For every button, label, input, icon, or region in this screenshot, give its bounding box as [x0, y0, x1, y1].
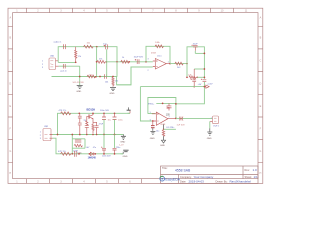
- resistor R6 feedback: [155, 45, 164, 48]
- svg-text:1N4148: 1N4148: [88, 157, 97, 160]
- svg-text:Company:: Company:: [180, 175, 192, 179]
- caps bank upper C17 C18: [102, 112, 112, 135]
- svg-text:+9V: +9V: [198, 84, 202, 86]
- capacitor C16 bottom: [74, 151, 76, 157]
- wire H2 mid rail: [106, 61, 153, 63]
- capacitor C2 on pin2 wire: [63, 64, 65, 69]
- svg-text:GND: GND: [150, 138, 155, 140]
- resistor R13 bottom: [61, 152, 71, 155]
- svg-text:Sheet:: Sheet:: [245, 175, 253, 179]
- op-amp U1.2: [150, 112, 176, 129]
- connector MK1 mic: [40, 126, 53, 140]
- svg-text:BD139: BD139: [87, 108, 96, 112]
- SECTION 2 : opamp U1.2 output: [140, 87, 219, 147]
- resistor R7: [175, 62, 184, 65]
- svg-text:C: C: [259, 60, 261, 63]
- wire pin1 up to top rail: [58, 47, 117, 77]
- svg-text:U1.1: U1.1: [157, 55, 162, 57]
- border outer: [8, 8, 263, 183]
- svg-text:47uF: 47uF: [99, 123, 104, 125]
- wire opamp2 out: [176, 117, 213, 119]
- capacitor C14: [85, 125, 89, 135]
- svg-text:1: 1: [211, 117, 212, 119]
- svg-text:7: 7: [169, 117, 170, 119]
- svg-text:3: 3: [148, 59, 149, 61]
- capacitor C15 emitter: [93, 122, 99, 134]
- ground jack: [76, 85, 82, 93]
- wire vertical x106.6: [106, 49, 108, 76]
- wire pin2 drop to ground: [79, 66, 81, 85]
- svg-text:4558: 4558: [151, 53, 157, 55]
- svg-text:Date:: Date:: [180, 180, 186, 184]
- connector J2 output: [210, 116, 220, 128]
- svg-text:GND: GND: [123, 156, 128, 158]
- bias rail wires: [187, 47, 204, 79]
- capacitor C9: [167, 103, 172, 110]
- inner wire: [156, 102, 176, 104]
- svg-text:H: H: [9, 172, 11, 175]
- capacitor C4 on top rail: [104, 44, 108, 49]
- resistor R2 to ground: [110, 77, 120, 95]
- border ticks left: [8, 26, 13, 162]
- border ticks right: [258, 26, 263, 162]
- svg-text:G: G: [259, 150, 261, 153]
- ground mid rail: [120, 135, 126, 144]
- svg-text:audio in: audio in: [54, 42, 62, 44]
- branch caps C12 C13: [78, 112, 82, 135]
- caps bank lower C19 C20: [101, 135, 111, 158]
- RC box: [71, 134, 85, 155]
- svg-text:GND: GND: [120, 142, 125, 144]
- svg-text:SJ1-3523N: SJ1-3523N: [73, 82, 84, 84]
- resistor R1 on row3: [87, 75, 96, 78]
- svg-text:4558 SAB: 4558 SAB: [175, 169, 191, 173]
- capacitor C10 to gnd: [150, 120, 159, 140]
- svg-text:2019-04-03: 2019-04-03: [189, 180, 205, 184]
- svg-text:Drawn By:: Drawn By:: [216, 180, 228, 184]
- svg-text:C: C: [9, 60, 11, 63]
- svg-text:1: 1: [168, 61, 169, 63]
- border ticks bottom: [27, 179, 142, 184]
- resistor R9 to gnd: [160, 124, 176, 146]
- resistor R17 between verticals: [97, 60, 105, 63]
- svg-text:G: G: [9, 150, 11, 153]
- wire row3: [52, 67, 153, 85]
- svg-text:10u: 10u: [156, 131, 159, 133]
- svg-text:10uF 50V: 10uF 50V: [134, 56, 144, 58]
- svg-text:D: D: [259, 83, 261, 86]
- wire opamp out: [170, 63, 187, 65]
- ground under J2: [207, 122, 213, 141]
- svg-text:47u: 47u: [93, 147, 96, 149]
- diode D1: [89, 153, 91, 155]
- svg-text:1-2V: 1-2V: [119, 144, 124, 146]
- border ticks top: [27, 8, 234, 12]
- svg-text:EasyEDA: EasyEDA: [165, 178, 180, 182]
- resistor R11 base: [86, 121, 88, 125]
- svg-text:H: H: [259, 172, 261, 175]
- svg-text:5: 5: [150, 112, 151, 114]
- SECTION power/bias right: [140, 44, 213, 104]
- svg-text:GND: GND: [160, 145, 165, 147]
- power flag +9V: [198, 84, 210, 88]
- EasyEDA logo: [160, 176, 181, 181]
- svg-text:100n 50V: 100n 50V: [100, 110, 110, 112]
- resistor R3 vertical from top rail: [75, 47, 82, 63]
- power flag battery top rail: [127, 107, 131, 113]
- capacitor C6 +9V on top: [192, 44, 199, 54]
- resistor R8: [186, 76, 188, 78]
- wire inner: [195, 52, 204, 54]
- wire pin2 down to bottom rail: [53, 138, 124, 154]
- wire vertical x96.6: [96, 47, 98, 77]
- wire +9V rail horizontal: [140, 86, 204, 88]
- capacitor C8 on rail: [201, 79, 206, 82]
- svg-text:1.0: 1.0: [253, 168, 258, 172]
- svg-text:GND: GND: [207, 138, 212, 140]
- wire bias to opamp pin2: [117, 67, 153, 85]
- wire up to top rail: [58, 113, 131, 134]
- svg-text:GND: GND: [76, 91, 81, 93]
- wire stub y69: [194, 68, 204, 70]
- svg-text:220u: 220u: [116, 147, 120, 149]
- ground bottom rail: [121, 150, 129, 158]
- capacitor C11: [179, 117, 183, 121]
- svg-text:2: 2: [148, 70, 149, 72]
- svg-text:GND: GND: [110, 93, 115, 95]
- svg-text:47K 1%: 47K 1%: [59, 110, 67, 112]
- svg-text:Title:: Title:: [162, 166, 168, 170]
- transistor Q1 BD139: [84, 112, 94, 122]
- svg-text:1/1: 1/1: [254, 175, 259, 179]
- svg-text:47K 1%: 47K 1%: [58, 151, 66, 153]
- svg-text:6: 6: [150, 120, 151, 122]
- capacitor C7: [191, 69, 197, 87]
- feedback loop wire: [146, 46, 170, 63]
- op-amp U1.1: [148, 53, 171, 72]
- svg-text:RaviJKhandelwl: RaviJKhandelwl: [230, 180, 252, 184]
- svg-text:10uF: 10uF: [193, 44, 199, 46]
- capacitor C5 on H2: [135, 59, 139, 64]
- resistor R5 on H2: [121, 60, 130, 63]
- svg-text:100n 50V: 100n 50V: [102, 156, 111, 158]
- connector J1 audio jack: [42, 56, 59, 70]
- SCHEMATIC SECTION 1 : input jack + opamp U1.1: [42, 42, 188, 95]
- bias vertical to opamp2: [140, 87, 152, 121]
- svg-text:Rev:: Rev:: [245, 168, 251, 172]
- feedback box wire: [148, 98, 176, 119]
- TITLE BLOCK: [160, 166, 258, 184]
- capacitor C1 on top rail: [63, 44, 65, 49]
- resistor R4 on top rail: [84, 45, 94, 48]
- svg-text:EW1+: EW1+: [148, 104, 155, 106]
- svg-text:jack in: jack in: [60, 70, 68, 72]
- svg-text:Your Company: Your Company: [194, 175, 214, 179]
- wire pin2: [59, 65, 80, 67]
- SECTION 3 : mic preamp BD139: [40, 107, 131, 159]
- svg-text:D: D: [9, 83, 11, 86]
- svg-text:+4.5V: +4.5V: [207, 83, 213, 85]
- svg-text:1uF 50V: 1uF 50V: [177, 124, 186, 126]
- capacitor C3 on row3: [104, 74, 106, 78]
- resistor R10 top: [61, 112, 71, 115]
- border inner: [13, 13, 258, 179]
- resistor R12 emitter: [92, 122, 94, 133]
- wire mid rail: [53, 134, 124, 136]
- border cell labels: [9, 10, 261, 184]
- svg-text:OUT1: OUT1: [213, 126, 220, 128]
